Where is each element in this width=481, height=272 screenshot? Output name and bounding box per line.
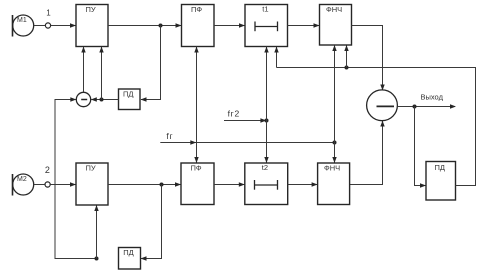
wire PF2 to t2 with arrow xyxy=(214,182,245,186)
svg-text:1: 1 xyxy=(46,9,51,18)
wire node 1 to PU1 with arrow xyxy=(51,23,76,27)
svg-text:2: 2 xyxy=(45,165,50,175)
subtractor U1 xyxy=(76,92,90,106)
node 1 xyxy=(45,9,51,29)
svg-text:t1: t1 xyxy=(262,5,268,14)
time gate t1 xyxy=(245,5,288,47)
svg-text:Выход: Выход xyxy=(421,93,444,102)
junction dot on control bus xyxy=(345,66,349,70)
svg-text:t2: t2 xyxy=(262,163,268,172)
wire PF column vertical with arrows into PF1 and PF2 xyxy=(194,47,198,164)
svg-text:М2: М2 xyxy=(17,176,27,183)
wire junction up to PU1 bottom with arrow xyxy=(99,47,103,100)
wire M1 to node 1 xyxy=(34,25,46,27)
svg-text:ПУ: ПУ xyxy=(86,164,96,173)
wire PD3 output up and left along control bus xyxy=(277,68,476,186)
junction dot between PU1 and PF1 xyxy=(159,24,163,28)
svg-text:М1: М1 xyxy=(17,17,27,24)
wire junction row1 down to PD1 input with arrow xyxy=(141,26,161,102)
junction dot on output wire xyxy=(413,105,417,109)
junction dot between PU2 and PF2 xyxy=(160,183,164,187)
node 2 xyxy=(45,165,50,187)
wire t column vertical with arrows into t1 and t2 xyxy=(264,47,268,164)
wire t1 to FNC1 with arrow xyxy=(288,23,320,27)
bandpass filter PF2 xyxy=(181,163,214,205)
svg-text:ФНЧ: ФНЧ xyxy=(324,164,340,173)
big subtractor U2 xyxy=(367,90,398,121)
wire FNC2 output to big subtractor bottom with arrow xyxy=(350,121,385,185)
microphone M1 xyxy=(13,15,34,37)
wire bus to FNC1 bottom with arrow xyxy=(344,45,348,68)
wire FNC column vertical with arrows into FNC1 and FNC2 xyxy=(332,45,336,163)
svg-text:ПФ: ПФ xyxy=(191,164,202,173)
wire fr bus horizontal with arrow xyxy=(160,140,334,144)
wire fr2 horizontal with arrow xyxy=(224,118,267,122)
svg-text:ФНЧ: ФНЧ xyxy=(326,5,342,14)
wire PD1 output to subtractor U1 right with arrow xyxy=(91,97,119,101)
amplifier PU1 xyxy=(76,5,108,47)
svg-text:ПД: ПД xyxy=(123,248,133,257)
peak detector PD2 xyxy=(119,248,141,270)
low-pass filter FNC1 xyxy=(320,5,352,46)
svg-text:ПД: ПД xyxy=(435,163,445,172)
wire PD2 output long feedback to U1 left input with arrow xyxy=(55,97,97,258)
svg-text:ПУ: ПУ xyxy=(86,5,96,14)
junction dot fr2 at t column xyxy=(265,119,269,123)
svg-text:fг: fг xyxy=(166,131,173,141)
wire M2 to node 2 xyxy=(34,184,45,186)
wire PU1 to PF1 with arrow xyxy=(108,23,182,27)
wire PF1 to t1 with arrow xyxy=(214,23,245,27)
svg-text:ПД: ПД xyxy=(123,89,133,98)
wire PU2 to PF2 with arrow xyxy=(108,182,181,186)
wire t2 to FNC2 with arrow xyxy=(288,182,318,186)
bandpass filter PF1 xyxy=(182,5,215,47)
svg-text:ПФ: ПФ xyxy=(191,5,202,14)
wire junction up to PU2 bottom with arrow xyxy=(94,205,98,259)
wire U1 output up to PU1 bottom with arrow xyxy=(81,47,85,93)
wire junction row2 down to PD2 input with arrow xyxy=(141,185,162,261)
junction dot fr bus at FNC column xyxy=(333,141,337,145)
wire output junction to PD3 input with arrow xyxy=(415,107,427,188)
low-pass filter FNC2 xyxy=(318,163,350,205)
junction dot on PD2 output line xyxy=(95,257,99,261)
wire node 2 to PU2 with arrow xyxy=(50,182,76,186)
output wire Vyhod with arrow xyxy=(398,93,457,109)
svg-text:fг2: fг2 xyxy=(228,109,240,119)
wire FNC1 output to big subtractor top with arrow xyxy=(352,26,385,91)
peak detector PD1 xyxy=(119,89,141,110)
wire bus to t1 bottom with arrow xyxy=(274,47,278,68)
junction dot on PD1 output xyxy=(100,98,104,102)
microphone M2 xyxy=(13,174,34,196)
peak detector PD3 xyxy=(426,162,456,201)
amplifier PU2 xyxy=(76,163,108,205)
time gate t2 xyxy=(245,163,288,205)
